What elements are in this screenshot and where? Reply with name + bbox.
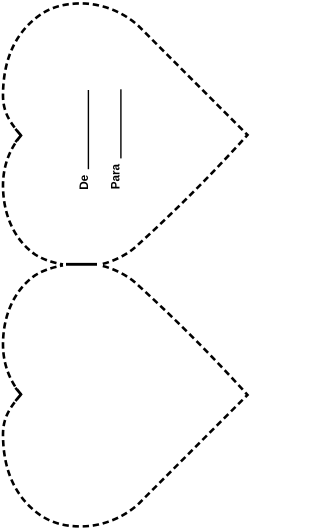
svg-text:De: De — [78, 174, 91, 189]
"Para" blank line — [120, 89, 122, 158]
svg-text:Para: Para — [110, 163, 123, 189]
bottom heart (mirrored dashed outline) — [3, 265, 248, 526]
fold line (solid) — [66, 263, 97, 266]
top heart (dashed outline) — [3, 3, 248, 264]
"De" blank line — [87, 90, 89, 169]
